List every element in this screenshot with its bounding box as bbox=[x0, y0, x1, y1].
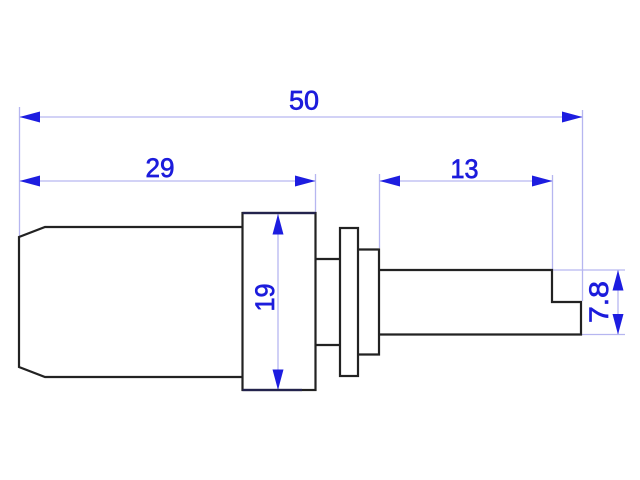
svg-text:50: 50 bbox=[289, 86, 319, 116]
washer bbox=[340, 228, 358, 376]
shaft with stepped right end bbox=[379, 270, 581, 335]
dimension 13 bbox=[380, 154, 553, 187]
extension line 13-right (x=552.5) bbox=[552, 175, 554, 269]
step A (between flange and washer) bbox=[316, 259, 341, 345]
extension line left (x=19.5) bbox=[19, 107, 21, 236]
dimension 29 bbox=[20, 153, 316, 187]
extension line 29-right (x=315.5) bbox=[315, 174, 317, 212]
dimension 19 (vertical, inside flange) bbox=[250, 214, 284, 390]
dimension 7.8 (vertical, right side) bbox=[584, 270, 624, 335]
flange top edge navy tint bbox=[243, 212, 316, 214]
dimension 50 bbox=[20, 86, 583, 123]
svg-text:19: 19 bbox=[250, 284, 280, 312]
part body (left knob with chamfered corners) bbox=[19, 227, 243, 377]
step B (between washer and shaft) bbox=[358, 250, 379, 355]
extension line 13-left (x=379.5) bbox=[379, 174, 381, 248]
flange bbox=[243, 213, 316, 390]
svg-text:29: 29 bbox=[146, 153, 175, 183]
flange bottom edge navy tint bbox=[243, 389, 303, 391]
extension line 7.8-top (y=270) bbox=[553, 269, 625, 271]
extension line 7.8-bottom (y=334.5) bbox=[582, 334, 625, 336]
svg-text:13: 13 bbox=[451, 154, 479, 184]
extension line 50-right (x=582.5) bbox=[582, 110, 584, 301]
svg-text:7.8: 7.8 bbox=[584, 281, 614, 323]
